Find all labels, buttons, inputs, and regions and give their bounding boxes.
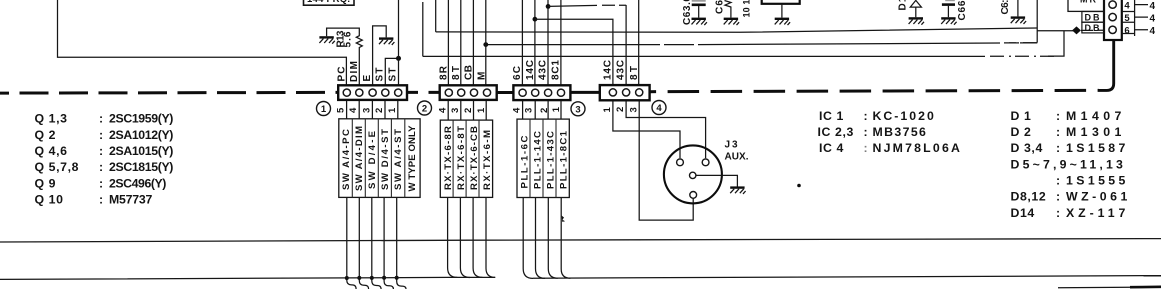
node: circled 4: [652, 101, 666, 115]
svg-text:D1: D1: [898, 0, 909, 11]
wire: tie between ST pins 1 and 2 of connector 1: [385, 58, 398, 89]
svg-text:SW A/4-ST: SW A/4-ST: [393, 129, 404, 190]
board boundary between connectors 3 and 4: [570, 91, 599, 94]
svg-text:2SC496(Y): 2SC496(Y): [109, 176, 167, 190]
svg-text:C63.0: C63.0: [682, 0, 693, 25]
svg-text::: :: [864, 141, 869, 155]
wire: step feed from top edge joining bus A and bus B: [1036, 0, 1038, 43]
svg-text:2: 2: [422, 104, 427, 115]
svg-text:C6:: C6:: [1000, 0, 1011, 15]
svg-text:2: 2: [374, 108, 385, 113]
wire bus B: from M pin dot across to right step wire: [486, 43, 1037, 45]
svg-text:4: 4: [1124, 1, 1130, 12]
svg-text:4: 4: [348, 107, 359, 113]
svg-text:8C1: 8C1: [551, 60, 562, 80]
svg-text:DIM: DIM: [349, 61, 360, 82]
svg-text:IC 1: IC 1: [819, 109, 844, 123]
svg-text:D 3,4: D 3,4: [1011, 141, 1043, 155]
connector DB block (cut off at top): [1104, 0, 1135, 40]
ground of pin E (connector 1 pin 3): [373, 26, 395, 89]
resistor stub (cut off at top): [724, 1, 739, 26]
svg-text:1: 1: [551, 106, 562, 112]
connector J3 AUX: [664, 145, 722, 203]
svg-text:2SC1815(Y): 2SC1815(Y): [109, 160, 174, 174]
wire: long feed from top-left down and across to connector 1 pin 5 (PC): [58, 0, 347, 89]
svg-text:KC-1020: KC-1020: [873, 109, 935, 123]
node dots where group 1 wires cross lower bus: [345, 276, 349, 280]
svg-text:Q 9: Q 9: [35, 176, 57, 190]
connector 2: [440, 85, 497, 100]
parts list: ICs: [818, 109, 961, 155]
svg-text:3: 3: [361, 108, 372, 113]
svg-text:8T: 8T: [629, 66, 640, 80]
svg-text:3: 3: [575, 104, 580, 115]
svg-text::: :: [99, 193, 104, 207]
wire and ground from J3 center pin: [696, 175, 746, 194]
wires: connector 1 pins down to wire-label box: [347, 101, 398, 119]
svg-text:M1301: M1301: [1066, 125, 1122, 139]
component box stub (cut off at top) with ground: [762, 0, 800, 25]
wire-label box for connector 2 (RX-TX ...): [440, 120, 492, 197]
svg-text:MB3756: MB3756: [873, 125, 927, 139]
svg-text::: :: [1056, 190, 1061, 204]
wires: connector 2 feeds from top edge: [448, 0, 485, 89]
connector 1 (board edge connector, pins 5-1): [338, 85, 407, 100]
label box 144 FRQ. (cut off at top edge): [304, 0, 355, 5]
blob artifact on wire: [562, 216, 566, 222]
svg-text:D14: D14: [1011, 206, 1035, 220]
wires: group 3 drop wires curving into lower right bus: [523, 198, 533, 279]
wire: from step wire to DB connector pin 6 row: [1037, 29, 1109, 32]
svg-text:NJM78L06A: NJM78L06A: [873, 141, 961, 155]
node: junction dot on ST wire: [396, 56, 401, 61]
svg-text::: :: [1056, 125, 1061, 139]
svg-text::: :: [1056, 206, 1061, 220]
wires: group 1 drop wires with bottom hooks: [347, 197, 356, 289]
svg-text:2SC1959(Y): 2SC1959(Y): [109, 112, 174, 126]
svg-text:14C: 14C: [525, 60, 536, 80]
svg-text::: :: [864, 109, 869, 123]
wire: thick drop from DB block to board boundary: [1099, 40, 1114, 90]
svg-text:4: 4: [1150, 26, 1156, 37]
svg-text:1: 1: [602, 107, 613, 113]
svg-text:ST: ST: [388, 68, 399, 82]
wire: feed from top edge to bus A corner: [435, 0, 437, 32]
wires: DB rows continuing to right edge: [1135, 5, 1148, 30]
svg-text:Q 2: Q 2: [35, 128, 57, 142]
wire-label box for connector 3 (PLL-1 ...): [517, 119, 569, 197]
svg-text:10 16: 10 16: [742, 0, 752, 18]
row label DB (pin 6): [1082, 22, 1104, 33]
svg-text:E: E: [362, 75, 373, 82]
svg-text:8R: 8R: [438, 65, 449, 80]
wire: connector 4 pin 1 to J3 top-left pin: [613, 101, 680, 158]
svg-text:PLL-1-8C1: PLL-1-8C1: [559, 130, 570, 189]
svg-text:6C: 6C: [512, 66, 523, 80]
svg-text:8T: 8T: [451, 66, 462, 80]
svg-text:SW A/4-PC: SW A/4-PC: [341, 129, 352, 190]
wire: connector 4 pin 3 to J3 bottom pin: [639, 101, 693, 220]
svg-text:AUX.: AUX.: [725, 152, 749, 163]
svg-text:6: 6: [1124, 25, 1129, 36]
board boundary dashed line (left section): [0, 91, 338, 95]
svg-text::: :: [864, 125, 869, 139]
node: junction dot on 43C wire: [546, 4, 551, 9]
svg-text:4: 4: [1150, 1, 1156, 12]
svg-text:RX·TX-6-CB: RX·TX-6-CB: [469, 126, 480, 190]
svg-text:Q 5,7,8: Q 5,7,8: [35, 160, 80, 174]
svg-text:1: 1: [387, 107, 398, 113]
svg-text:RX·TX-6-8R: RX·TX-6-8R: [443, 126, 454, 190]
svg-text:PC: PC: [336, 67, 347, 82]
svg-text:1: 1: [321, 104, 327, 115]
label box (cut) above DB rows: [1068, 0, 1104, 11]
svg-text::: :: [99, 160, 104, 174]
svg-text:PLL-1-14C: PLL-1-14C: [533, 131, 544, 189]
svg-text:4: 4: [656, 103, 662, 114]
board boundary dashed line (right section): [650, 90, 1099, 91]
svg-text:Q 4,6: Q 4,6: [35, 144, 68, 158]
wires: connector 2 pins down to wire-label box: [448, 101, 486, 121]
capacitor C63 (cut off at top): [692, 1, 707, 25]
svg-text::: :: [1056, 109, 1061, 123]
svg-text:5.6: 5.6: [343, 31, 354, 47]
svg-text:IC 2,3: IC 2,3: [818, 125, 854, 139]
svg-text:2SA1015(Y): 2SA1015(Y): [109, 144, 174, 158]
wire bus A: across to right step wire: [436, 28, 1037, 32]
svg-text:CB: CB: [464, 65, 475, 80]
svg-text:Q 10: Q 10: [35, 193, 64, 207]
wire: 8T feed from top edge to connector 4 pin 3: [638, 0, 640, 89]
svg-text:5: 5: [1124, 13, 1130, 24]
svg-text:4: 4: [1150, 13, 1156, 24]
svg-text::: :: [1056, 141, 1061, 155]
wires: group 2 drop wires curving into lower bus: [448, 197, 458, 277]
wire bus C: across to right side, up to DB feed line: [423, 55, 985, 57]
wire: connector 4 pin 2 to J3 top-right pin: [626, 101, 706, 158]
svg-text::: :: [99, 144, 104, 158]
wire: upper long bus line across sheet: [0, 239, 1161, 242]
svg-text:M57737: M57737: [109, 193, 153, 207]
svg-text:3: 3: [524, 108, 535, 113]
wire-label box for connector 1 (SW A/4 ...): [339, 119, 420, 198]
resistor R13 (5.6) from DIM pin to ground: [319, 28, 362, 89]
svg-text:RX·TX-6-8T: RX·TX-6-8T: [456, 126, 467, 190]
svg-text::: :: [99, 112, 104, 126]
svg-text:C66: C66: [957, 0, 968, 20]
connector 3: [513, 85, 570, 100]
svg-text:J3: J3: [725, 140, 738, 151]
wire: feed from top edge to bus C corner: [422, 2, 424, 56]
node: diamond junction dot: [1072, 26, 1081, 34]
svg-text::: :: [99, 176, 104, 190]
svg-text:W TYPE ONLY: W TYPE ONLY: [407, 125, 418, 192]
node: circled 2: [418, 101, 432, 115]
svg-text:DB: DB: [1085, 23, 1101, 33]
wires: connector 3 pins down to wire-label box: [523, 101, 561, 119]
svg-text:14C: 14C: [603, 60, 614, 80]
svg-text:PLL-1-43C: PLL-1-43C: [546, 131, 557, 189]
parts list: transistors: [35, 112, 175, 207]
dot artifact: [797, 184, 801, 188]
wires: connector 3 feeds from top edge: [522, 0, 561, 89]
svg-text:M: M: [476, 72, 487, 80]
svg-text:3: 3: [450, 108, 461, 113]
node: junction dot on M wire: [483, 42, 488, 47]
board boundary dash between connectors 1 and 2: [407, 91, 440, 94]
svg-text:4: 4: [438, 107, 449, 113]
node: junction dot on 14C wire: [533, 17, 538, 22]
svg-text:Q 1,3: Q 1,3: [35, 112, 68, 126]
parts list: diodes: [1011, 109, 1129, 220]
svg-text:DB: DB: [1085, 12, 1101, 22]
svg-text:1: 1: [476, 107, 487, 113]
diode D1 (cut off at top): [909, 0, 924, 24]
wire: 43C chain link to connector 4 pin 2: [548, 5, 626, 89]
wire: lower long bus line (right part): [533, 276, 1161, 279]
node: circled 1: [317, 102, 331, 116]
svg-text:2: 2: [615, 107, 626, 112]
node: circled 3: [571, 102, 585, 116]
connector 4: [600, 85, 650, 100]
svg-text:2SA1012(Y): 2SA1012(Y): [109, 128, 174, 142]
svg-text:D5~7,9~11,13: D5~7,9~11,13: [1011, 157, 1124, 171]
svg-text:5: 5: [336, 107, 347, 113]
svg-text:C6: C6: [715, 0, 726, 14]
svg-text:ST: ST: [375, 68, 386, 82]
svg-text:4: 4: [511, 107, 522, 113]
svg-text:IC 4: IC 4: [819, 141, 844, 155]
svg-text:43C: 43C: [616, 60, 627, 80]
wire: partial line at bottom right edge: [1058, 286, 1130, 289]
svg-text::: :: [1056, 174, 1061, 188]
svg-text:D8,12: D8,12: [1011, 190, 1047, 204]
wire: 14C link to connector 4 pin 1: [535, 19, 613, 88]
wire bus B end dashes: [1009, 42, 1037, 44]
board boundary between connectors 2 and 3: [497, 91, 514, 94]
capacitor lead with ground (C6x, cut off at top): [1011, 0, 1026, 24]
svg-text:144 FRQ.: 144 FRQ.: [307, 0, 350, 5]
wire: ST pin 1 feed from top edge: [398, 0, 400, 89]
svg-text:SW D/4-ST: SW D/4-ST: [380, 129, 391, 190]
svg-text:3: 3: [628, 107, 639, 112]
svg-text:43C: 43C: [538, 60, 549, 80]
svg-text:2: 2: [463, 108, 474, 113]
row label DB (pin 5): [1082, 12, 1104, 23]
svg-text:D 2: D 2: [1011, 125, 1032, 139]
wire: lower long bus line (left part): [0, 277, 495, 279]
svg-text::: :: [99, 128, 104, 142]
capacitor C66 (cut off at top): [941, 0, 956, 24]
svg-text:D 1: D 1: [1011, 109, 1032, 123]
svg-text:M1407: M1407: [1066, 109, 1122, 123]
